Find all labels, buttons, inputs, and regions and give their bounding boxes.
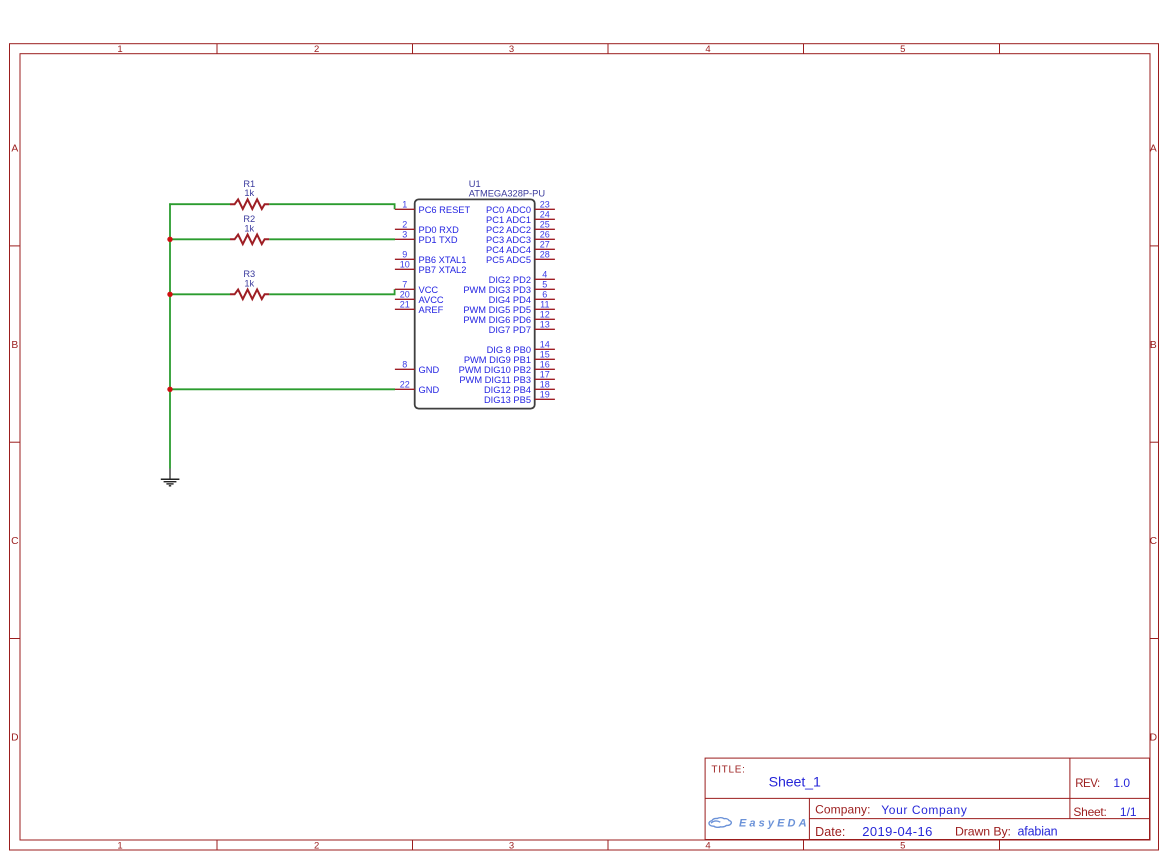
svg-text:PC1 ADC1: PC1 ADC1 [486, 215, 531, 225]
svg-text:PWM DIG6 PD6: PWM DIG6 PD6 [463, 315, 531, 325]
U1 pin 4 (DIG2 PD2) [489, 270, 555, 285]
svg-text:25: 25 [540, 220, 550, 230]
svg-text:26: 26 [540, 230, 550, 240]
svg-text:6: 6 [542, 290, 547, 300]
svg-text:8: 8 [402, 360, 407, 370]
svg-text:Sheet:: Sheet: [1073, 805, 1106, 819]
R3 label [243, 269, 255, 279]
svg-text:PC4 ADC4: PC4 ADC4 [486, 245, 531, 255]
svg-text:1: 1 [402, 200, 407, 210]
wire: vertical net segment x=170 [169, 203, 171, 468]
svg-text:15: 15 [540, 350, 550, 360]
svg-text:12: 12 [540, 310, 550, 320]
U1 pin 6 (DIG4 PD4) [489, 290, 555, 305]
svg-text:A: A [11, 143, 18, 154]
svg-text:VCC: VCC [419, 285, 439, 295]
wire: R1 to U1 pin 1 [169, 204, 394, 209]
U1 pin 1 (PC6 RESET) [395, 200, 471, 215]
svg-text:PWM DIG9 PB1: PWM DIG9 PB1 [464, 355, 531, 365]
svg-text:1/1: 1/1 [1120, 805, 1137, 819]
svg-text:PWM DIG3 PD3: PWM DIG3 PD3 [463, 285, 531, 295]
svg-text:AVCC: AVCC [419, 295, 444, 305]
U1 reference label [469, 179, 481, 189]
svg-text:PC2 ADC2: PC2 ADC2 [486, 225, 531, 235]
svg-text:1.0: 1.0 [1113, 776, 1130, 790]
junction at ground wire [167, 387, 172, 392]
svg-text:PC0 ADC0: PC0 ADC0 [486, 205, 531, 215]
wire: R2 to U1 pin 3 [170, 238, 395, 240]
svg-text:B: B [11, 340, 18, 351]
U1 pin 11 (PWM DIG5 PD5) [463, 300, 555, 315]
svg-text:ATMEGA328P-PU: ATMEGA328P-PU [469, 188, 545, 198]
resistor R2 [230, 235, 269, 245]
svg-text:2: 2 [402, 220, 407, 230]
svg-text:3: 3 [509, 44, 514, 55]
svg-text:PD0 RXD: PD0 RXD [419, 225, 460, 235]
svg-text:Date:: Date: [815, 825, 845, 839]
svg-text:3: 3 [509, 840, 514, 851]
svg-text:PB7 XTAL2: PB7 XTAL2 [419, 265, 467, 275]
svg-text:TITLE:: TITLE: [711, 765, 745, 776]
R1 label [243, 179, 255, 189]
svg-text:4: 4 [705, 840, 710, 851]
svg-text:PC5 ADC5: PC5 ADC5 [486, 255, 531, 265]
svg-text:20: 20 [400, 290, 410, 300]
svg-text:1k: 1k [244, 278, 254, 288]
svg-text:DIG13 PB5: DIG13 PB5 [484, 395, 531, 405]
svg-text:U1: U1 [469, 179, 481, 189]
svg-text:DIG2 PD2: DIG2 PD2 [489, 275, 531, 285]
U1 pin 20 (AVCC) [395, 290, 444, 305]
svg-text:21: 21 [400, 300, 410, 310]
IC U1 body (ATMEGA328P-PU) [415, 199, 535, 408]
U1 pin 3 (PD1 TXD) [395, 230, 458, 245]
svg-text:17: 17 [540, 370, 550, 380]
U1 pin 27 (PC4 ADC4) [486, 240, 555, 255]
R1 value 1k [244, 188, 254, 198]
svg-text:D: D [11, 732, 18, 743]
svg-text:DIG7 PD7: DIG7 PD7 [489, 325, 531, 335]
U1 pin 5 (PWM DIG3 PD3) [463, 280, 555, 295]
svg-text:DIG4 PD4: DIG4 PD4 [489, 295, 531, 305]
U1 pin 10 (PB7 XTAL2) [395, 260, 466, 275]
U1 pin 19 (DIG13 PB5) [484, 390, 555, 405]
svg-text:19: 19 [540, 390, 550, 400]
U1 pin 8 (GND) [395, 360, 440, 375]
U1 pin 24 (PC1 ADC1) [486, 210, 555, 225]
svg-text:13: 13 [540, 320, 550, 330]
svg-text:GND: GND [419, 385, 440, 395]
U1 value label ATMEGA328P-PU [469, 188, 545, 198]
svg-text:D: D [1150, 732, 1157, 743]
svg-text:1: 1 [117, 44, 122, 55]
U1 pin 15 (PWM DIG9 PB1) [464, 350, 555, 365]
U1 pin 7 (VCC) [395, 280, 439, 295]
resistor R1 [230, 199, 269, 209]
svg-text:Sheet_1: Sheet_1 [769, 775, 821, 791]
wire: ground net to U1 pin 22 [170, 388, 395, 390]
svg-text:AREF: AREF [419, 305, 444, 315]
svg-text:PWM DIG11 PB3: PWM DIG11 PB3 [459, 375, 531, 385]
U1 pin 9 (PB6 XTAL1) [395, 250, 466, 265]
svg-text:afabian: afabian [1018, 825, 1058, 839]
svg-text:9: 9 [402, 250, 407, 260]
U1 pin 25 (PC2 ADC2) [486, 220, 555, 235]
svg-text:18: 18 [540, 380, 550, 390]
svg-text:2: 2 [314, 840, 319, 851]
svg-text:28: 28 [540, 250, 550, 260]
svg-text:5: 5 [542, 280, 547, 290]
svg-text:REV:: REV: [1075, 778, 1100, 790]
svg-text:27: 27 [540, 240, 550, 250]
svg-text:4: 4 [705, 44, 710, 55]
svg-text:C: C [1150, 536, 1158, 547]
svg-text:A: A [1150, 143, 1157, 154]
U1 pin 21 (AREF) [395, 300, 444, 315]
svg-text:24: 24 [540, 210, 550, 220]
svg-text:PC6 RESET: PC6 RESET [419, 205, 471, 215]
svg-text:C: C [11, 536, 19, 547]
U1 pin 2 (PD0 RXD) [395, 220, 459, 235]
svg-text:1: 1 [117, 840, 122, 851]
U1 pin 17 (PWM DIG11 PB3) [459, 370, 555, 385]
svg-text:16: 16 [540, 360, 550, 370]
U1 pin 13 (DIG7 PD7) [489, 320, 555, 335]
svg-text:11: 11 [540, 300, 549, 310]
svg-text:PWM DIG5 PD5: PWM DIG5 PD5 [463, 305, 531, 315]
svg-text:Drawn By:: Drawn By: [955, 824, 1011, 838]
svg-text:PC3 ADC3: PC3 ADC3 [486, 235, 531, 245]
svg-text:EasyEDA: EasyEDA [739, 817, 810, 829]
svg-text:14: 14 [540, 340, 550, 350]
U1 pin 12 (PWM DIG6 PD6) [463, 310, 555, 325]
svg-text:Company:: Company: [815, 803, 871, 817]
svg-text:PB6 XTAL1: PB6 XTAL1 [419, 255, 467, 265]
svg-text:23: 23 [540, 200, 550, 210]
resistor R3 [230, 290, 269, 300]
svg-text:1k: 1k [244, 188, 254, 198]
U1 pin 18 (DIG12 PB4) [484, 380, 555, 395]
svg-text:Your Company: Your Company [881, 803, 967, 817]
svg-text:PWM DIG10 PB2: PWM DIG10 PB2 [459, 365, 531, 375]
junction at R2 wire [167, 237, 172, 242]
U1 pin 26 (PC3 ADC3) [486, 230, 555, 245]
U1 pin 14 (DIG 8 PB0) [487, 340, 555, 355]
U1 pin 16 (PWM DIG10 PB2) [459, 360, 555, 375]
U1 pin 22 (GND) [395, 380, 440, 395]
U1 pin 23 (PC0 ADC0) [486, 200, 555, 215]
junction at R3 wire [167, 292, 172, 297]
svg-text:5: 5 [900, 44, 905, 55]
ground [161, 469, 180, 486]
svg-text:22: 22 [400, 380, 410, 390]
svg-text:2: 2 [314, 44, 319, 55]
R3 value 1k [244, 278, 254, 288]
svg-text:DIG12 PB4: DIG12 PB4 [484, 385, 531, 395]
R2 label [243, 214, 255, 224]
svg-text:5: 5 [900, 840, 905, 851]
svg-text:DIG 8 PB0: DIG 8 PB0 [487, 345, 531, 355]
svg-text:2019-04-16: 2019-04-16 [862, 824, 933, 839]
R2 value 1k [244, 223, 254, 233]
svg-text:GND: GND [419, 365, 440, 375]
svg-text:10: 10 [400, 260, 410, 270]
svg-text:1k: 1k [244, 223, 254, 233]
svg-text:4: 4 [542, 270, 547, 280]
U1 pin 28 (PC5 ADC5) [486, 250, 555, 265]
svg-text:B: B [1150, 340, 1157, 351]
svg-text:7: 7 [402, 280, 407, 290]
svg-text:PD1 TXD: PD1 TXD [419, 235, 458, 245]
wire: R3 to U1 pin 7 [170, 289, 395, 294]
svg-text:3: 3 [402, 230, 407, 240]
